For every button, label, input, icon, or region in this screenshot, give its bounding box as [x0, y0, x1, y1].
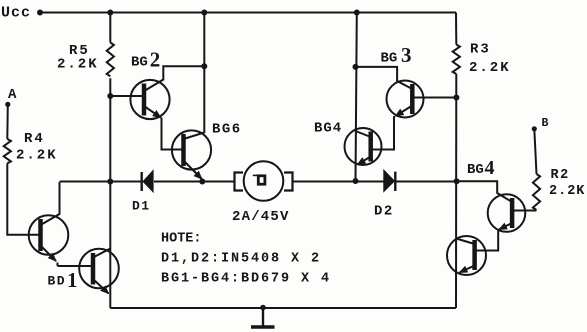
wire V4 lower — [455, 74, 457, 308]
wire V2 vertical x=204 — [203, 13, 205, 134]
node junction top rail x=204 — [201, 10, 207, 16]
label D2 — [374, 204, 394, 220]
label BD1 — [48, 268, 78, 292]
label 2A/45V — [232, 209, 290, 225]
svg-text:R3: R3 — [470, 42, 491, 58]
svg-text:BG: BG — [467, 162, 484, 178]
svg-text:D2: D2 — [374, 204, 394, 220]
label BG4 (right) — [467, 157, 495, 179]
wire top right corner down — [455, 13, 457, 45]
node junction BG2 base x=110 y=96 — [107, 93, 113, 99]
label BG4 (mid) — [314, 121, 342, 137]
svg-text:D1,D2:IN5408 X 2: D1,D2:IN5408 X 2 — [161, 252, 321, 267]
label R4 2.2K — [16, 131, 58, 164]
node junction middle rail x=456 — [454, 178, 460, 184]
node junction middle rail x=110 — [107, 179, 113, 185]
transistor BG1 (labeled BD1, left) — [29, 182, 69, 266]
resistor R2 — [533, 174, 540, 210]
label R5 2.2K — [57, 43, 99, 73]
svg-text:Ucc: Ucc — [1, 5, 31, 22]
wire top rail — [40, 12, 456, 14]
wire V1 vertical x=110 top segment — [109, 13, 111, 43]
node A label — [8, 87, 17, 103]
wire middle rail left — [60, 181, 143, 183]
node junction top rail x=357 — [354, 10, 360, 16]
svg-text:3: 3 — [401, 43, 412, 67]
svg-text:R4: R4 — [24, 131, 45, 147]
svg-text:R2: R2 — [551, 168, 570, 183]
svg-text:2: 2 — [150, 48, 161, 72]
label R2 2.2K — [549, 168, 585, 199]
node junction middle rail x=202 — [199, 179, 205, 185]
wire V3 vertical x=355.5 — [356, 13, 357, 182]
wire node B down — [534, 129, 536, 174]
wire node A down — [6, 104, 9, 139]
svg-text:4: 4 — [485, 157, 495, 179]
Vcc label — [1, 5, 31, 22]
motor M (2A/45V) — [235, 161, 384, 201]
svg-text:D1: D1 — [132, 199, 151, 214]
svg-text:BG: BG — [131, 55, 148, 71]
diode D2 — [384, 171, 456, 191]
svg-text:2.2K: 2.2K — [57, 57, 99, 73]
node B terminal dot — [532, 126, 537, 131]
label D1 — [132, 199, 151, 214]
svg-text:BG: BG — [381, 51, 398, 67]
Vcc terminal dot — [37, 10, 43, 16]
svg-text:2A/45V: 2A/45V — [232, 209, 290, 225]
node A terminal dot — [5, 102, 10, 107]
node B label — [542, 117, 549, 130]
wire R2 to base — [512, 210, 537, 212]
transistor BG3 — [356, 67, 457, 150]
svg-text:A: A — [8, 87, 17, 103]
wire V1 vertical x=110 lower segment — [109, 78, 111, 308]
label R3 2.2K — [469, 42, 511, 77]
transistor BG2 — [110, 66, 204, 149]
node junction x=456 y=97.5 — [453, 95, 459, 101]
wire R4 to base — [7, 163, 40, 234]
transistor BG6 — [172, 130, 211, 179]
transistor BG4 (mid) — [345, 128, 382, 165]
ground — [251, 305, 275, 327]
svg-text:B: B — [542, 117, 549, 130]
resistor R3 — [453, 45, 460, 75]
svg-text:BG6: BG6 — [212, 121, 242, 137]
svg-text:2.2K: 2.2K — [549, 184, 585, 199]
svg-text:BG1-BG4:BD679 X 4: BG1-BG4:BD679 X 4 — [161, 272, 331, 287]
motor M glyph (rotated M) — [253, 175, 265, 184]
svg-text:2.2K: 2.2K — [16, 148, 58, 164]
transistor BG4 (right upper) — [457, 181, 526, 250]
svg-text:1: 1 — [67, 268, 78, 292]
note text — [161, 232, 331, 287]
label BG2 — [131, 48, 160, 72]
label BG6 — [212, 121, 242, 137]
label BG3 — [381, 43, 412, 67]
wire bottom rail — [110, 307, 456, 309]
node junction top rail x=110 — [107, 10, 113, 16]
transistor BG5 (labeled BD1 pair, right) — [58, 249, 119, 294]
svg-text:BD: BD — [48, 274, 67, 289]
node junction x=355.5 y=67 — [353, 64, 359, 70]
node junction middle rail x=355 — [353, 178, 359, 184]
resistor R5 — [107, 43, 114, 77]
svg-text:2.2K: 2.2K — [469, 60, 511, 76]
diode D1 — [142, 172, 235, 191]
svg-text:BG4: BG4 — [314, 121, 342, 137]
resistor R4 — [4, 139, 11, 163]
node junction x=204 y=66.5 — [201, 63, 207, 69]
svg-text:HOTE:: HOTE: — [161, 232, 202, 247]
transistor BG4 (right lower) — [447, 236, 486, 275]
